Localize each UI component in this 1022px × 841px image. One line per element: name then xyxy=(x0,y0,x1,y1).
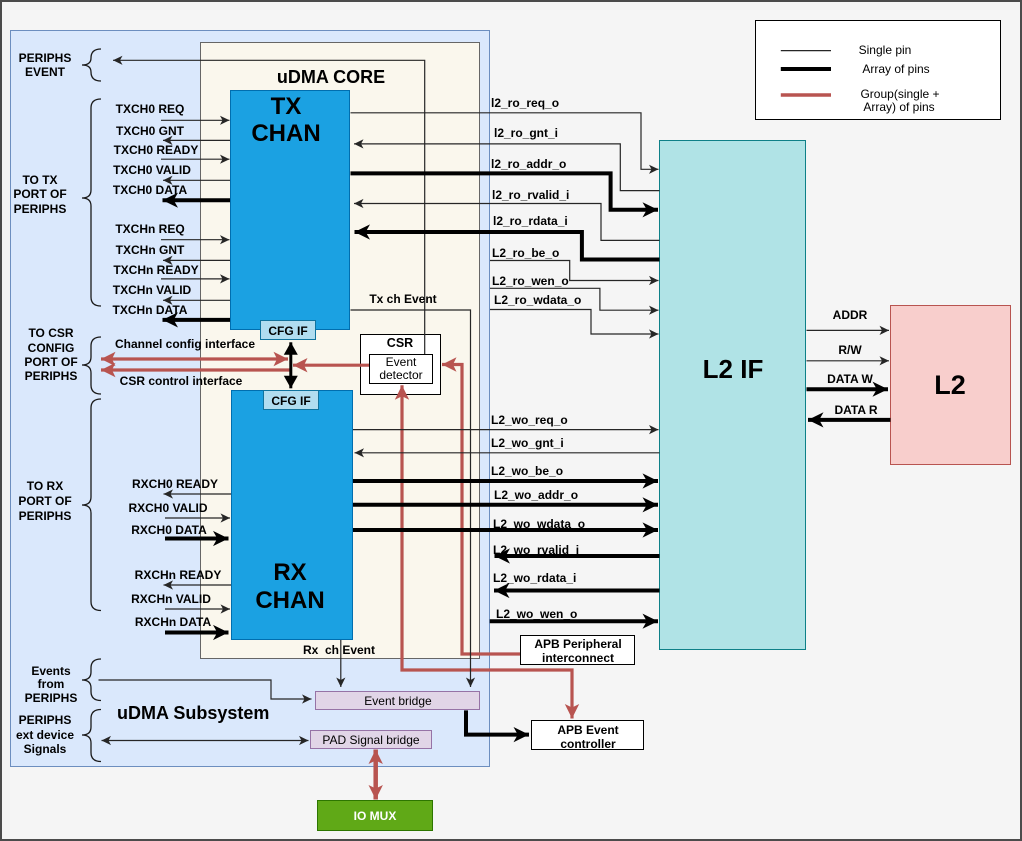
wire L2_wo_be_o xyxy=(353,479,658,483)
legend single pin sample xyxy=(781,50,831,52)
legend group sample xyxy=(781,93,831,97)
uDMA Subsystem container xyxy=(10,30,490,767)
TX CHAN block xyxy=(230,90,350,330)
wire Channel config interface (double arrow) xyxy=(101,357,288,360)
wire RXCHn DATA xyxy=(165,631,229,635)
label uDMA Subsystem xyxy=(117,706,269,720)
brace PERIPHS ext device Signals xyxy=(82,710,101,762)
wire L2_ro_wen_o xyxy=(490,288,659,310)
wire TXCH0 VALID xyxy=(163,179,230,181)
wire l2_ro_gnt_i xyxy=(354,144,660,191)
L2 side labels xyxy=(833,308,868,322)
wire PAD Signal bridge to IO MUX (red double arrow) xyxy=(373,750,378,800)
label PERIPHS EVENT xyxy=(19,51,72,65)
wire CFG IF vertical double arrow xyxy=(289,342,292,388)
wire RXCHn READY xyxy=(164,584,232,586)
wire RXCH0 VALID xyxy=(165,517,230,519)
wire Event detector to APB Event controller (double arrow) xyxy=(402,385,572,718)
L2 IF block xyxy=(659,140,806,650)
wire l2_ro_req_o xyxy=(351,113,659,170)
wire RXCH0 READY xyxy=(164,493,232,495)
wire TXCHn DATA xyxy=(163,318,231,322)
wire l2_ro_rdata_i xyxy=(355,232,660,260)
CFG IF top box xyxy=(260,320,316,340)
wire TXCH0 REQ xyxy=(161,119,230,121)
label TO CSR CONFIG PORT OF PERIPHS xyxy=(28,326,73,340)
RX CHAN block xyxy=(231,390,353,640)
wire L2_wo_addr_o xyxy=(353,503,658,507)
wire ADDR xyxy=(807,329,890,331)
PAD Signal bridge box xyxy=(310,730,432,749)
l2_ro signal labels xyxy=(491,96,559,110)
legend box xyxy=(755,20,1001,120)
legend array of pins sample xyxy=(781,67,831,71)
wire L2_ro_wdata_o xyxy=(490,310,659,335)
wire Events from PERIPHS xyxy=(99,680,312,699)
brace TO RX xyxy=(82,399,101,611)
wire DATA R xyxy=(808,418,891,422)
wire DATA W xyxy=(807,387,889,391)
IO MUX box xyxy=(317,800,433,831)
uDMA CORE container xyxy=(200,42,480,659)
label uDMA CORE xyxy=(277,70,385,84)
thin black wires xyxy=(99,60,890,740)
wire TXCH0 READY xyxy=(161,158,230,160)
wire L2_wo_rdata_i xyxy=(494,589,660,593)
wire TXCHn REQ xyxy=(161,239,230,241)
label Events from PERIPHS xyxy=(31,664,70,678)
L2 block xyxy=(890,305,1011,465)
TX channel signal labels xyxy=(116,102,185,116)
CSR box xyxy=(360,334,441,395)
thick black wires xyxy=(163,173,891,734)
wire L2_wo_rvalid_i xyxy=(495,554,660,558)
wire TXCHn VALID xyxy=(163,299,230,301)
Event bridge box xyxy=(315,691,480,710)
wire TXCHn GNT xyxy=(163,259,230,261)
event labels xyxy=(369,292,436,306)
CFG IF bottom box xyxy=(263,390,319,410)
wire Rx ch Event xyxy=(340,640,342,687)
wire CSR control interface xyxy=(101,368,291,371)
wire PERIPHS ext device Signals (double arrow) xyxy=(102,740,309,742)
wire L2_wo_req_o xyxy=(353,429,659,431)
L2_wo signal labels xyxy=(491,413,568,427)
wire L2_ro_be_o xyxy=(490,261,659,281)
wire l2_ro_addr_o xyxy=(351,173,659,209)
label PERIPHS ext device Signals xyxy=(19,713,72,727)
brace Events from PERIPHS xyxy=(82,659,101,701)
wire RXCH0 DATA xyxy=(165,537,229,541)
label TO RX PORT OF PERIPHS xyxy=(27,479,63,493)
brace TO TX xyxy=(82,99,101,306)
wire TXCHn READY xyxy=(161,278,230,280)
wire Event bridge to APB Event controller xyxy=(466,710,529,734)
red group lines first xyxy=(101,359,572,719)
APB Event controller box xyxy=(531,720,644,750)
braces xyxy=(82,49,101,762)
wire RXCHn VALID xyxy=(165,608,230,610)
label TO TX PORT OF PERIPHS xyxy=(22,173,57,187)
wire R/W xyxy=(807,360,890,362)
brace TO CSR xyxy=(82,337,101,394)
wire PERIPHS EVENT from Event detector xyxy=(113,60,425,354)
Event detector box xyxy=(369,354,433,384)
CSR interface labels xyxy=(115,337,255,351)
APB Peripheral interconnect box xyxy=(520,635,635,665)
wire L2_wo_gnt_i xyxy=(355,452,660,454)
wire l2_ro_rvalid_i xyxy=(354,204,660,241)
wire TXCH0 DATA xyxy=(163,198,231,202)
brace PERIPHS EVENT xyxy=(82,49,101,81)
wire Tx ch Event xyxy=(351,310,471,687)
wire TXCH0 GNT xyxy=(163,139,230,141)
wire Event detector to CFG arrows xyxy=(293,364,369,367)
wire L2_wo_wen_o xyxy=(490,619,658,623)
wire L2_wo_wdata_o xyxy=(353,528,658,532)
RX channel signal labels xyxy=(132,477,218,491)
wire APB Peripheral interconnect to Event detector xyxy=(442,365,520,655)
